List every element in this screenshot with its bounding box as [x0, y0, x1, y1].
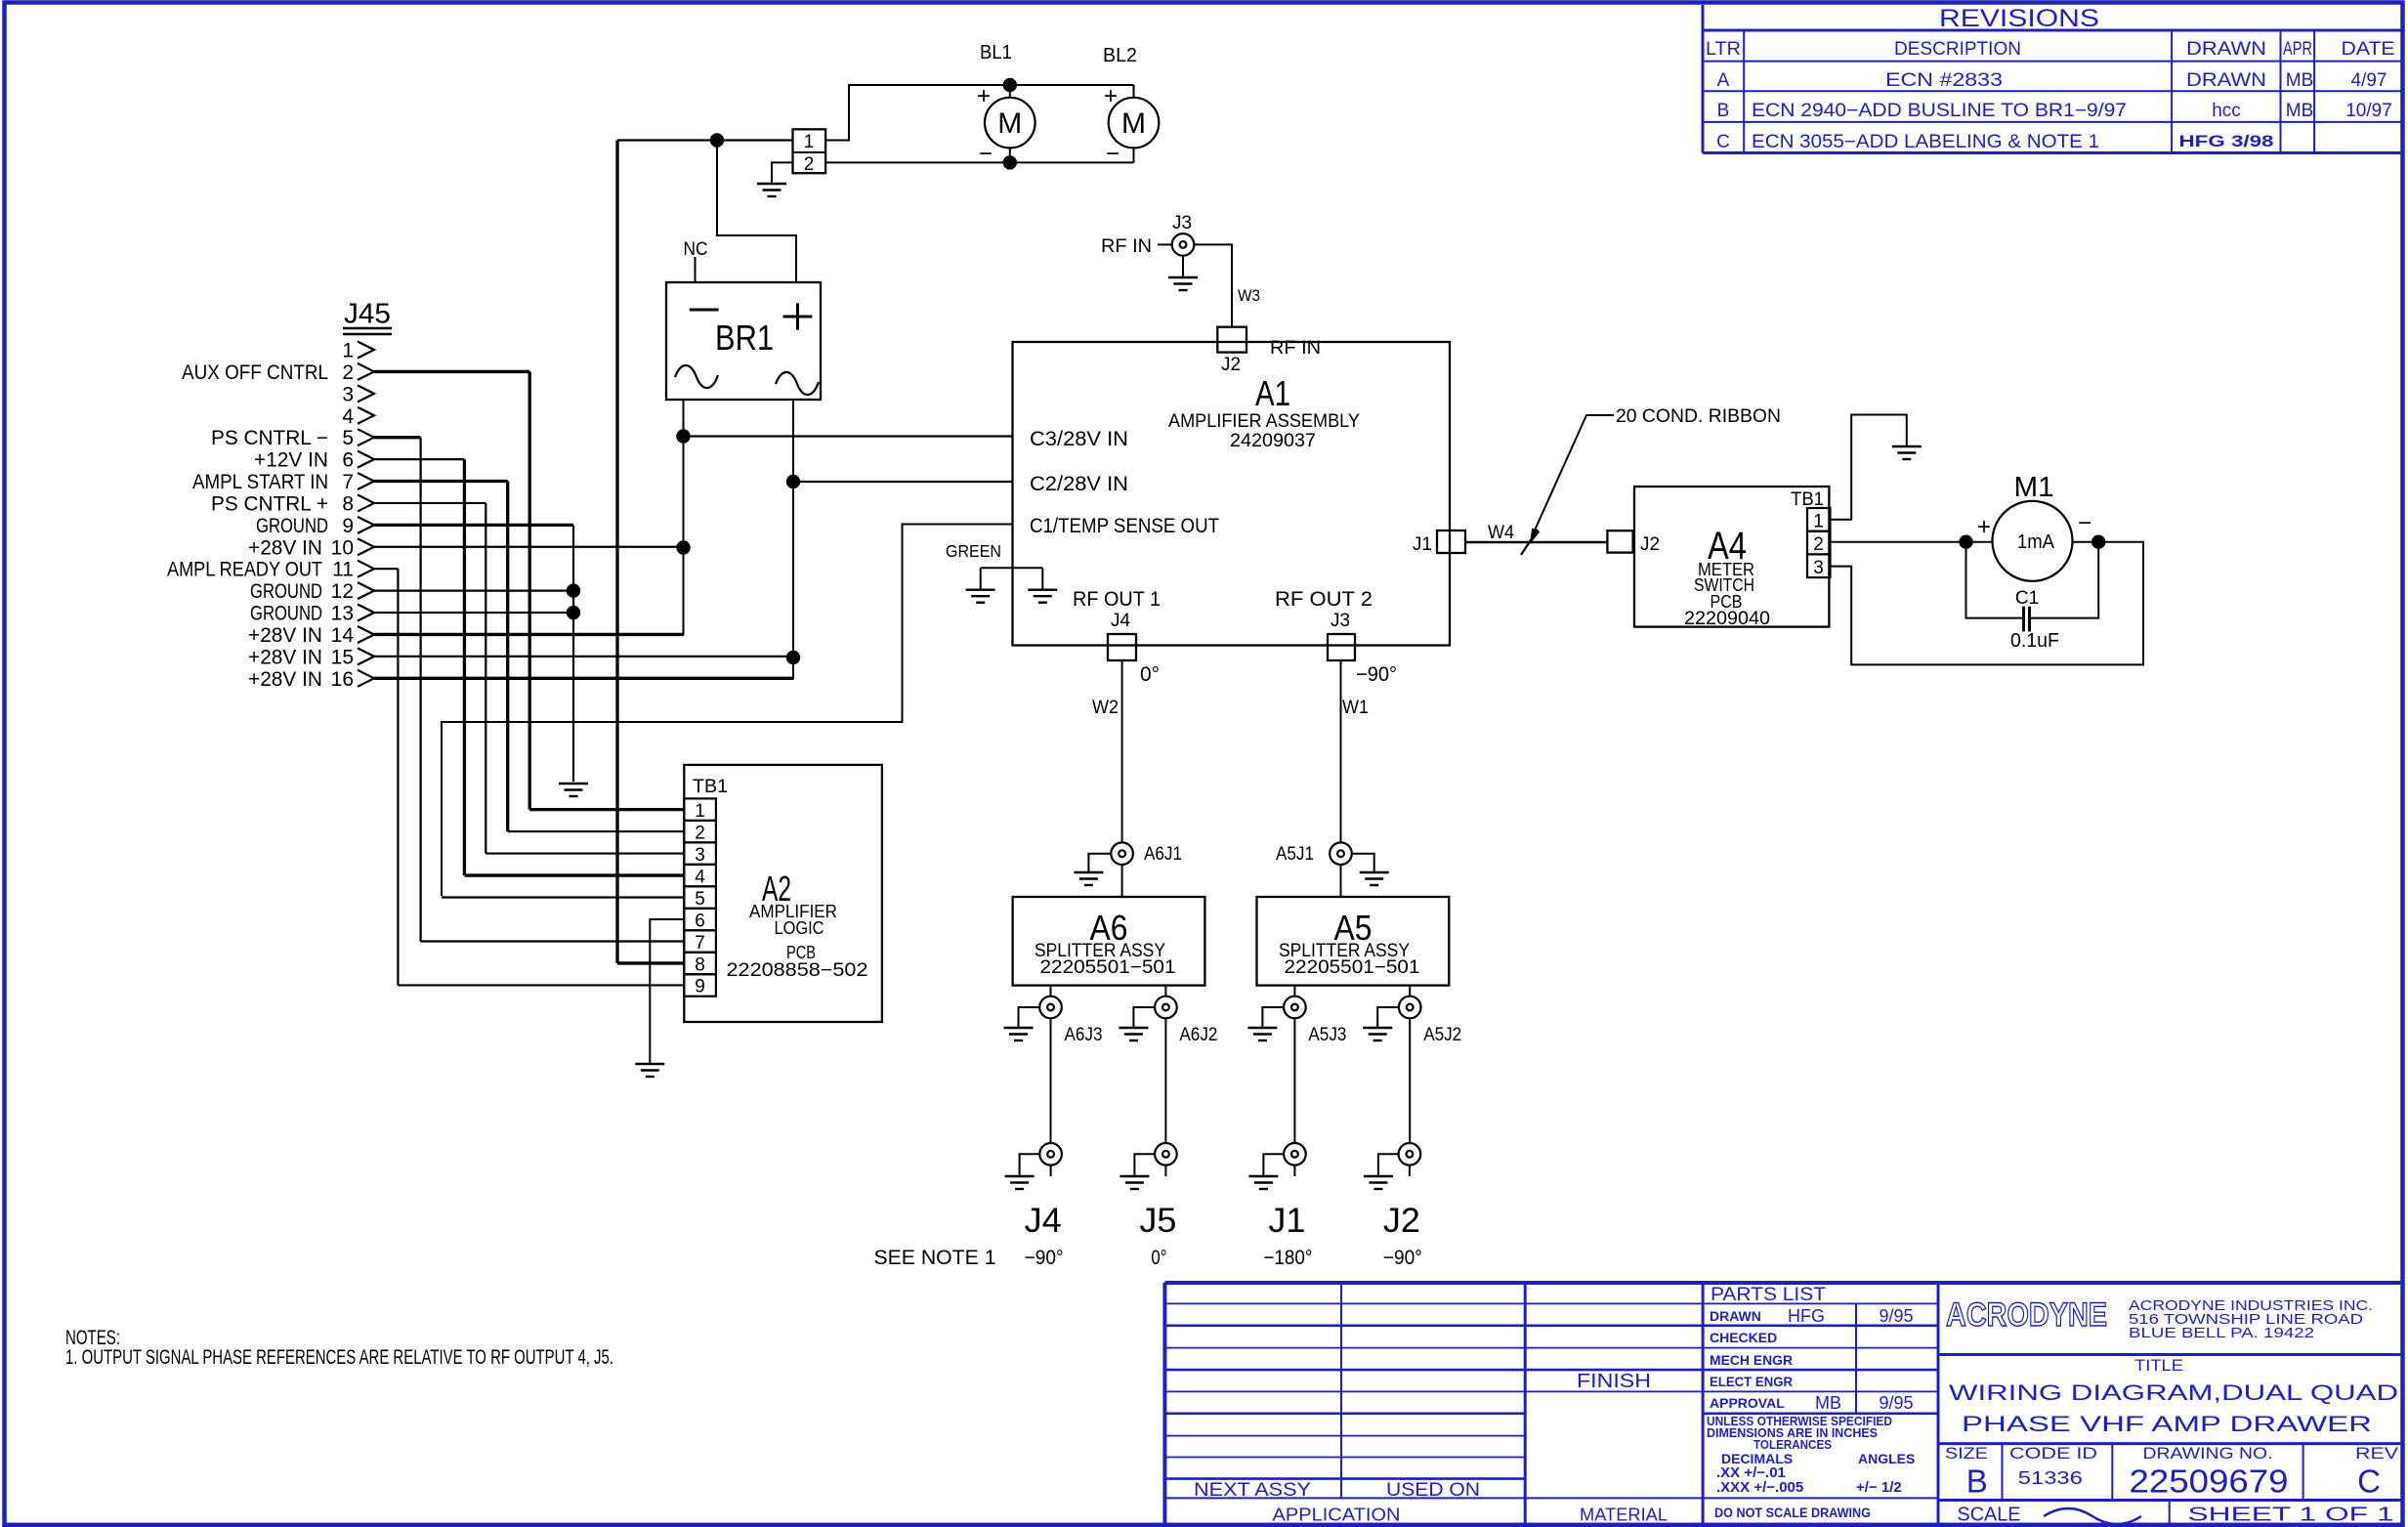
svg-text:TB1: TB1 [1791, 489, 1824, 510]
svg-text:A: A [1717, 70, 1730, 91]
svg-text:9: 9 [342, 515, 354, 537]
svg-text:ELECT ENGR: ELECT ENGR [1710, 1374, 1793, 1389]
svg-text:CODE ID: CODE ID [2009, 1444, 2097, 1463]
svg-text:NEXT ASSY: NEXT ASSY [1194, 1480, 1311, 1501]
svg-text:BL1: BL1 [980, 42, 1012, 64]
svg-text:5: 5 [342, 427, 354, 449]
svg-text:LTR: LTR [1706, 39, 1741, 60]
svg-text:CHECKED: CHECKED [1710, 1330, 1777, 1345]
svg-text:A5J3: A5J3 [1308, 1025, 1346, 1045]
svg-text:A6J1: A6J1 [1144, 844, 1182, 865]
svg-text:GROUND: GROUND [250, 580, 322, 603]
svg-text:8: 8 [695, 954, 705, 975]
svg-text:6: 6 [342, 449, 354, 472]
svg-text:0°: 0° [1151, 1247, 1166, 1269]
svg-text:−90°: −90° [1356, 663, 1397, 686]
svg-text:DRAWN: DRAWN [2186, 70, 2266, 91]
svg-text:6: 6 [695, 911, 705, 931]
svg-text:A1: A1 [1255, 373, 1290, 413]
svg-text:APPLICATION: APPLICATION [1273, 1506, 1401, 1525]
svg-text:+28V IN: +28V IN [248, 646, 322, 668]
svg-text:1: 1 [695, 801, 705, 822]
svg-text:C3/28V IN: C3/28V IN [1030, 428, 1128, 450]
svg-text:3: 3 [695, 845, 705, 866]
svg-text:1: 1 [1813, 512, 1824, 532]
svg-text:REVISIONS: REVISIONS [1939, 5, 2099, 32]
svg-text:22209040: 22209040 [1684, 609, 1770, 629]
svg-text:9: 9 [695, 977, 705, 997]
svg-text:W4: W4 [1488, 523, 1514, 543]
svg-text:ACRODYNE: ACRODYNE [1946, 1296, 2107, 1334]
svg-text:22208858−502: 22208858−502 [727, 959, 868, 981]
svg-text:J4: J4 [1111, 611, 1131, 631]
svg-text:13: 13 [331, 603, 354, 625]
svg-text:FINISH: FINISH [1577, 1371, 1651, 1392]
svg-text:DRAWN: DRAWN [2186, 39, 2266, 60]
svg-text:APPROVAL: APPROVAL [1710, 1395, 1785, 1411]
svg-text:15: 15 [331, 646, 354, 668]
svg-text:2: 2 [804, 154, 815, 175]
svg-text:PARTS LIST: PARTS LIST [1711, 1285, 1826, 1305]
svg-text:J3: J3 [1331, 611, 1350, 631]
svg-text:TB1: TB1 [693, 777, 728, 797]
svg-text:−90°: −90° [1025, 1247, 1064, 1269]
svg-text:+/− 1/2: +/− 1/2 [1856, 1479, 1902, 1496]
svg-text:C: C [1716, 132, 1730, 152]
svg-text:.XXX +/−.005: .XXX +/−.005 [1716, 1479, 1803, 1496]
svg-text:−180°: −180° [1263, 1247, 1312, 1269]
svg-text:USED ON: USED ON [1386, 1480, 1480, 1501]
svg-text:MB: MB [2286, 101, 2314, 121]
svg-text:−: − [979, 141, 993, 167]
svg-text:J2: J2 [1221, 355, 1241, 375]
svg-text:MB: MB [1815, 1393, 1841, 1413]
svg-text:B: B [1966, 1463, 1988, 1500]
svg-text:J1: J1 [1413, 534, 1432, 555]
svg-text:PS CNTRL +: PS CNTRL + [211, 492, 328, 515]
svg-text:9/95: 9/95 [1879, 1306, 1913, 1326]
svg-text:16: 16 [331, 668, 354, 691]
svg-text:4: 4 [695, 867, 705, 887]
svg-text:MATERIAL: MATERIAL [1580, 1506, 1668, 1525]
svg-text:+28V IN: +28V IN [248, 624, 322, 647]
svg-text:22509679: 22509679 [2130, 1463, 2289, 1500]
svg-text:4: 4 [342, 405, 354, 428]
svg-text:TOLERANCES: TOLERANCES [1753, 1437, 1832, 1452]
svg-text:2: 2 [342, 361, 354, 384]
svg-text:SCALE: SCALE [1958, 1505, 2021, 1526]
svg-text:DATE: DATE [2342, 39, 2395, 60]
svg-text:W1: W1 [1342, 698, 1369, 718]
svg-text:MB: MB [2286, 70, 2314, 91]
svg-text:W2: W2 [1092, 698, 1119, 718]
svg-text:DESCRIPTION: DESCRIPTION [1894, 39, 2021, 60]
svg-text:TITLE: TITLE [2134, 1356, 2183, 1375]
svg-text:ANGLES: ANGLES [1858, 1451, 1915, 1466]
svg-text:14: 14 [331, 624, 355, 647]
svg-text:2: 2 [1813, 534, 1824, 555]
svg-text:REV: REV [2355, 1444, 2399, 1463]
svg-text:+28V IN: +28V IN [248, 536, 322, 559]
svg-text:+28V IN: +28V IN [248, 668, 322, 691]
svg-text:ECN #2833: ECN #2833 [1885, 70, 2003, 91]
svg-text:BL2: BL2 [1103, 45, 1137, 66]
svg-text:1mA: 1mA [2017, 531, 2055, 553]
svg-text:SIZE: SIZE [1945, 1444, 1988, 1463]
svg-text:GROUND: GROUND [250, 603, 322, 625]
svg-text:22205501−501: 22205501−501 [1285, 956, 1420, 978]
svg-text:24209037: 24209037 [1230, 431, 1316, 451]
svg-text:ECN 2940−ADD BUSLINE TO BR: ECN 2940−ADD BUSLINE TO BR1−9/97 [1752, 101, 2127, 121]
svg-text:DO NOT SCALE DRAWING: DO NOT SCALE DRAWING [1714, 1505, 1871, 1520]
svg-text:A5J1: A5J1 [1276, 844, 1314, 865]
svg-text:M: M [1121, 107, 1146, 140]
svg-text:A6J3: A6J3 [1065, 1025, 1103, 1045]
svg-text:C: C [2357, 1463, 2381, 1500]
svg-text:M: M [997, 107, 1022, 140]
svg-text:GROUND: GROUND [256, 515, 328, 537]
svg-text:DRAWN: DRAWN [1710, 1308, 1761, 1324]
svg-text:7: 7 [342, 471, 354, 493]
svg-text:C1/TEMP SENSE OUT: C1/TEMP SENSE OUT [1030, 515, 1219, 537]
svg-text:2: 2 [695, 823, 705, 843]
svg-text:LOGIC: LOGIC [775, 918, 824, 938]
svg-text:1: 1 [342, 340, 354, 362]
svg-text:M1: M1 [2014, 472, 2054, 503]
svg-text:PHASE VHF AMP DRAWER: PHASE VHF AMP DRAWER [1962, 1412, 2372, 1436]
svg-text:22205501−501: 22205501−501 [1040, 956, 1176, 978]
svg-text:RF OUT 2: RF OUT 2 [1275, 588, 1373, 611]
svg-text:hcc: hcc [2212, 101, 2241, 121]
svg-text:C1: C1 [2015, 588, 2039, 609]
svg-text:SHEET 1 OF 1: SHEET 1 OF 1 [2188, 1505, 2394, 1526]
svg-text:RF IN: RF IN [1270, 338, 1321, 359]
svg-text:AMPL READY OUT: AMPL READY OUT [167, 559, 322, 581]
svg-text:GREEN: GREEN [946, 541, 1001, 561]
svg-text:ECN 3055−ADD LABELING & NO: ECN 3055−ADD LABELING & NOTE 1 [1752, 132, 2099, 152]
svg-text:MECH ENGR: MECH ENGR [1710, 1352, 1793, 1368]
svg-text:11: 11 [332, 559, 354, 581]
svg-text:3: 3 [1813, 558, 1824, 578]
svg-text:1. OUTPUT SIGNAL PHASE R: 1. OUTPUT SIGNAL PHASE REFERENCES ARE RE… [65, 1346, 613, 1369]
svg-text:J4: J4 [1025, 1202, 1062, 1240]
svg-text:−90°: −90° [1383, 1247, 1422, 1269]
svg-text:HFG: HFG [1788, 1306, 1825, 1326]
svg-text:J45: J45 [344, 299, 391, 330]
svg-text:20 COND. RIBBON: 20 COND. RIBBON [1616, 406, 1781, 427]
svg-text:7: 7 [695, 933, 705, 954]
svg-text:AUX OFF CNTRL: AUX OFF CNTRL [182, 361, 328, 384]
svg-text:J1: J1 [1268, 1202, 1305, 1240]
svg-text:+: + [977, 83, 991, 109]
svg-text:51336: 51336 [2018, 1468, 2083, 1488]
svg-text:J5: J5 [1139, 1202, 1176, 1240]
svg-text:AMPLIFIER ASSEMBLY: AMPLIFIER ASSEMBLY [1168, 411, 1360, 432]
svg-text:0°: 0° [1140, 663, 1160, 686]
svg-text:10: 10 [331, 536, 354, 559]
svg-text:APR: APR [2283, 39, 2312, 60]
svg-text:−: − [1106, 141, 1120, 167]
svg-text:SEE NOTE 1: SEE NOTE 1 [874, 1247, 996, 1269]
svg-text:W3: W3 [1238, 286, 1260, 305]
svg-text:RF IN: RF IN [1101, 236, 1152, 257]
svg-text:DRAWING NO.: DRAWING NO. [2143, 1444, 2273, 1463]
svg-text:WIRING DIAGRAM,DUAL QUAD: WIRING DIAGRAM,DUAL QUAD [1949, 1380, 2398, 1405]
svg-text:RF OUT 1: RF OUT 1 [1073, 588, 1161, 611]
svg-text:B: B [1717, 101, 1730, 121]
svg-text:3: 3 [342, 383, 354, 405]
svg-text:J2: J2 [1640, 534, 1660, 555]
svg-text:5: 5 [695, 889, 705, 910]
svg-text:NC: NC [684, 239, 708, 260]
svg-text:PS CNTRL −: PS CNTRL − [211, 427, 328, 449]
svg-text:+: + [1104, 83, 1118, 109]
svg-text:9/95: 9/95 [1879, 1393, 1913, 1413]
svg-text:+: + [1977, 514, 1991, 540]
svg-text:J2: J2 [1383, 1202, 1420, 1240]
svg-text:0.1uF: 0.1uF [2010, 630, 2059, 652]
svg-text:1: 1 [804, 132, 815, 152]
svg-text:BR1: BR1 [715, 318, 774, 358]
svg-text:J3: J3 [1172, 213, 1192, 233]
svg-text:HFG 3/98: HFG 3/98 [2179, 132, 2274, 150]
svg-text:C2/28V IN: C2/28V IN [1030, 473, 1128, 495]
svg-text:10/97: 10/97 [2345, 101, 2392, 121]
svg-text:12: 12 [331, 580, 354, 603]
svg-text:8: 8 [342, 492, 354, 515]
svg-text:A6J2: A6J2 [1179, 1025, 1217, 1045]
svg-text:AMPL START IN: AMPL START IN [192, 471, 328, 493]
svg-text:4/97: 4/97 [2351, 70, 2387, 91]
svg-text:A5J2: A5J2 [1423, 1025, 1461, 1045]
svg-text:+12V IN: +12V IN [254, 449, 328, 472]
svg-text:−: − [2078, 510, 2091, 536]
svg-text:BLUE BELL PA. 19422: BLUE BELL PA. 19422 [2129, 1325, 2314, 1341]
